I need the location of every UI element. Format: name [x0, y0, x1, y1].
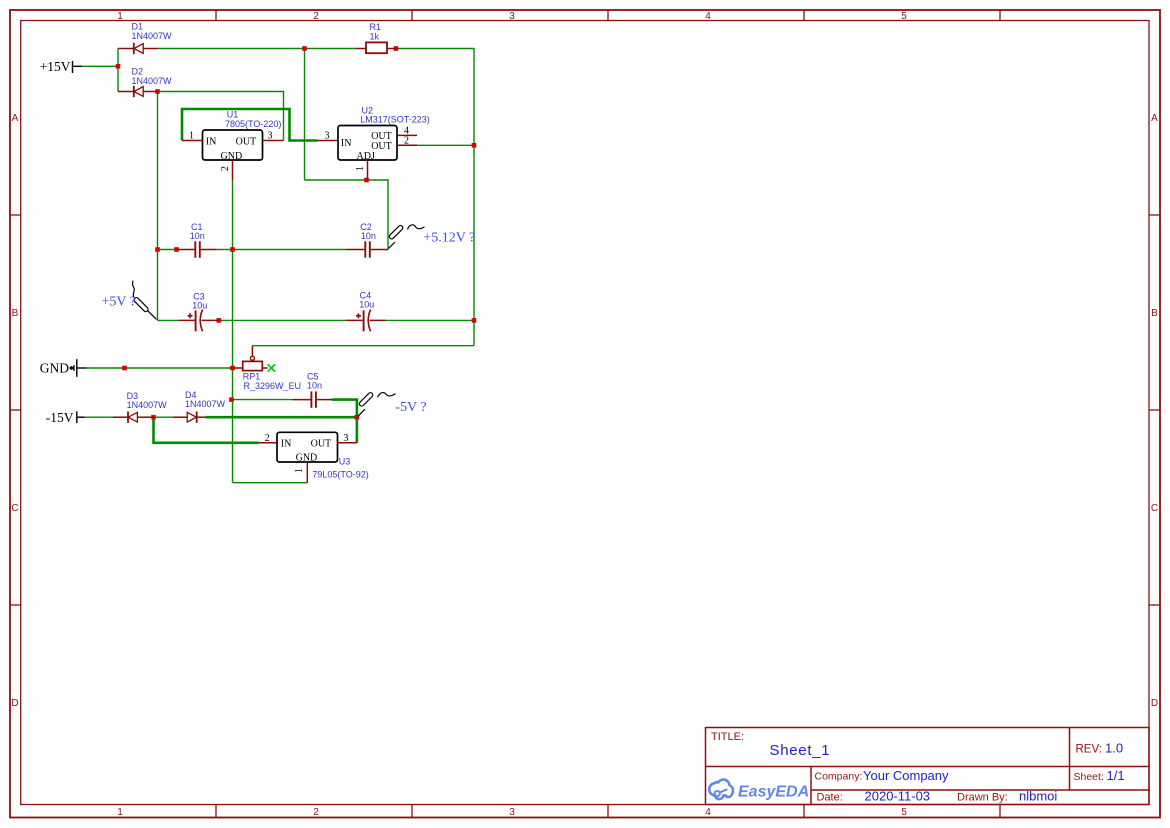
- probe +5.12V: [388, 225, 424, 249]
- probe +5V: [133, 281, 157, 320]
- op-amp U3 79L05 regulator: [259, 432, 369, 482]
- node C1 left pin end: [174, 247, 179, 252]
- port -15V: [77, 411, 85, 423]
- resistor R1: [356, 42, 396, 53]
- svg-text:nlbmoi: nlbmoi: [1019, 789, 1057, 804]
- wire +15V port to junction: [82, 65, 118, 67]
- wire +5V probe corner to C3: [158, 319, 179, 321]
- svg-text:Company:: Company:: [815, 771, 863, 783]
- svg-text:R1: R1: [370, 22, 382, 32]
- wire C5 left: [233, 399, 293, 401]
- wire ADJ row to C2: [305, 180, 389, 250]
- wire GND port to RP1: [87, 367, 233, 369]
- op-amp U1 7805 regulator: [182, 109, 284, 180]
- no-connect X on RP1: [268, 364, 275, 371]
- svg-text:Sheet_1: Sheet_1: [770, 742, 831, 759]
- op-amp U2 LM317 regulator: [318, 106, 430, 180]
- wire C1 left: [158, 249, 177, 251]
- svg-text:1N4007W: 1N4007W: [127, 400, 168, 410]
- svg-text:U1: U1: [227, 109, 239, 119]
- node -5V junction: [355, 415, 360, 420]
- svg-text:GND: GND: [40, 360, 69, 375]
- svg-text:D: D: [1151, 698, 1158, 709]
- node GND-RP1 junction: [230, 366, 235, 371]
- node C3 right pin end: [217, 318, 222, 323]
- port GND: [70, 359, 86, 377]
- port +15V: [73, 61, 83, 73]
- svg-text:2020-11-03: 2020-11-03: [865, 789, 931, 804]
- wire thick U1 pin1 to U2 pin3: [182, 109, 318, 141]
- diode D1: [118, 43, 158, 54]
- svg-text:Date:: Date:: [817, 792, 843, 804]
- svg-text:+5V ?: +5V ?: [102, 294, 136, 309]
- svg-text:10u: 10u: [359, 300, 374, 310]
- svg-text:3: 3: [268, 131, 273, 142]
- svg-text:GND: GND: [296, 452, 318, 463]
- svg-text:5: 5: [901, 807, 907, 818]
- wire vertical D2 junction down to C3 row: [157, 92, 159, 321]
- svg-text:ADJ: ADJ: [357, 151, 375, 162]
- wire C4 right: [386, 319, 474, 321]
- svg-text:IN: IN: [206, 136, 217, 147]
- svg-text:5: 5: [901, 11, 907, 22]
- diode D3: [113, 412, 154, 423]
- wire node J2 down to ADJ row: [304, 49, 306, 181]
- node C5 left junction: [229, 397, 234, 402]
- svg-text:U3: U3: [339, 456, 351, 466]
- node C4 right junction: [472, 318, 477, 323]
- wire U2 pin2 OUT to vertical: [417, 144, 474, 146]
- svg-text:1N4007W: 1N4007W: [132, 76, 173, 86]
- svg-text:10n: 10n: [307, 381, 322, 391]
- junction dots: [116, 46, 477, 419]
- svg-text:-15V: -15V: [46, 410, 74, 425]
- node U2 pin2 junction: [472, 143, 477, 148]
- EasyEDA logo: [709, 780, 809, 801]
- wire C1 right to C2 left: [217, 249, 347, 251]
- svg-text:1: 1: [117, 11, 123, 22]
- svg-text:IN: IN: [281, 439, 292, 450]
- wire -15V port to D3: [85, 416, 113, 418]
- capacitor C5: [293, 391, 332, 407]
- capacitor C4 polarized: [346, 310, 386, 332]
- svg-text:EasyEDA: EasyEDA: [738, 784, 809, 801]
- svg-text:A: A: [1151, 113, 1158, 124]
- svg-text:+15V: +15V: [40, 59, 71, 74]
- svg-text:2: 2: [313, 11, 319, 22]
- node ADJ pin junction: [364, 178, 369, 183]
- wire D1 to R1: [158, 48, 356, 50]
- svg-text:10n: 10n: [190, 231, 205, 241]
- svg-text:OUT: OUT: [311, 439, 332, 450]
- svg-text:C: C: [1151, 503, 1158, 514]
- svg-text:10n: 10n: [361, 231, 376, 241]
- wire RP1 wiper row horizontal: [252, 345, 474, 347]
- svg-text:+5.12V ?: +5.12V ?: [423, 230, 475, 245]
- svg-text:2: 2: [404, 135, 409, 146]
- node C1 left cross junction: [155, 247, 160, 252]
- svg-text:1N4007W: 1N4007W: [185, 399, 226, 409]
- node D2 output junction: [155, 89, 160, 94]
- wire vertical D1-D2 input: [117, 49, 119, 92]
- svg-text:4: 4: [705, 11, 711, 22]
- svg-text:LM317(SOT-223): LM317(SOT-223): [360, 115, 430, 125]
- potentiometer RP1: [234, 346, 268, 371]
- svg-text:3: 3: [343, 433, 348, 444]
- svg-text:7805(TO-220): 7805(TO-220): [225, 119, 281, 129]
- diode D4: [173, 412, 205, 423]
- svg-text:Drawn By:: Drawn By:: [957, 792, 1008, 804]
- svg-text:TITLE:: TITLE:: [711, 731, 744, 743]
- capacitor C1: [177, 241, 217, 257]
- svg-text:10u: 10u: [192, 300, 207, 310]
- svg-text:GND: GND: [221, 151, 243, 162]
- node GND wire pin end: [122, 366, 127, 371]
- svg-text:B: B: [12, 308, 19, 319]
- capacitor C3 polarized: [179, 310, 219, 332]
- svg-text:IN: IN: [341, 138, 352, 149]
- svg-text:-5V ?: -5V ?: [395, 400, 426, 415]
- wire GND vertical U1 pin2 down: [232, 180, 234, 483]
- svg-text:79L05(TO-92): 79L05(TO-92): [312, 470, 368, 480]
- svg-text:1: 1: [117, 807, 123, 818]
- probe -5V: [358, 392, 396, 416]
- title block: [706, 728, 1150, 805]
- svg-text:D: D: [11, 698, 18, 709]
- svg-text:1.0: 1.0: [1105, 741, 1123, 756]
- node +15V junction: [116, 64, 121, 69]
- wire R1 right to top-right corner down to RP1 wiper row: [396, 49, 474, 346]
- svg-text:Sheet:: Sheet:: [1074, 771, 1104, 783]
- svg-text:RP1: RP1: [243, 372, 261, 382]
- svg-text:1k: 1k: [370, 32, 380, 42]
- svg-text:1: 1: [355, 166, 366, 171]
- wire D3 to D4: [154, 416, 174, 418]
- svg-text:2: 2: [265, 433, 270, 444]
- wire C3 right to C4 left: [219, 319, 346, 321]
- node R1-left/ADJ junction: [302, 46, 307, 51]
- node C1 right junction: [230, 247, 235, 252]
- svg-text:R_3296W_EU: R_3296W_EU: [244, 381, 302, 391]
- node R1 right pin junction: [394, 46, 399, 51]
- svg-text:2: 2: [313, 807, 319, 818]
- svg-text:1N4007W: 1N4007W: [132, 31, 173, 41]
- svg-text:A: A: [12, 113, 19, 124]
- wire thick C5 right corner down: [332, 400, 357, 443]
- node D3-D4 junction: [151, 415, 156, 420]
- diode D2: [118, 86, 158, 97]
- svg-text:1: 1: [294, 468, 305, 473]
- svg-text:1/1: 1/1: [1107, 768, 1125, 783]
- wire thick D3 junction down to U3 pin2: [154, 417, 259, 443]
- svg-text:D1: D1: [132, 22, 144, 32]
- svg-text:D2: D2: [132, 66, 144, 76]
- svg-text:4: 4: [705, 807, 711, 818]
- svg-text:3: 3: [325, 131, 330, 142]
- svg-text:2: 2: [220, 166, 231, 171]
- svg-text:1: 1: [189, 131, 194, 142]
- svg-text:3: 3: [509, 11, 515, 22]
- svg-text:REV:: REV:: [1076, 744, 1102, 756]
- capacitor C2: [347, 241, 389, 257]
- svg-text:B: B: [1151, 308, 1158, 319]
- wire thick D4 to -5V junction: [205, 416, 357, 419]
- svg-text:OUT: OUT: [236, 136, 257, 147]
- svg-text:C: C: [11, 503, 18, 514]
- svg-text:3: 3: [509, 807, 515, 818]
- svg-text:Your Company: Your Company: [863, 768, 949, 783]
- wire U3 GND to ground vertical: [233, 482, 308, 484]
- wire D2 to U1 pin3: [158, 92, 284, 141]
